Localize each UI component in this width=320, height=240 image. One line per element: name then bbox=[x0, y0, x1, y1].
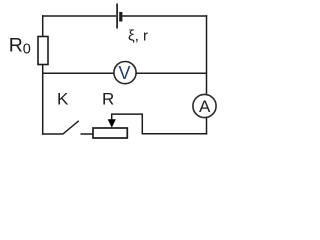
wire right vertical upper bbox=[206, 15, 208, 95]
svg-text:R: R bbox=[102, 90, 114, 109]
wire bottom right bbox=[142, 133, 207, 135]
svg-text:ξ, r: ξ, r bbox=[128, 28, 148, 45]
switch fixed contact wire bbox=[81, 133, 94, 135]
battery cell short plate bbox=[119, 12, 122, 22]
svg-text:K: K bbox=[57, 90, 69, 109]
wire wiper drop bbox=[141, 114, 143, 135]
wire left vertical lower bbox=[42, 65, 44, 135]
rheostat R body bbox=[93, 128, 127, 138]
wire wiper horizontal bbox=[111, 113, 142, 115]
wire bottom left bbox=[42, 133, 63, 135]
svg-text:V: V bbox=[118, 63, 130, 83]
resistor R0 bbox=[38, 37, 48, 65]
ammeter A bbox=[193, 94, 216, 117]
wire middle left bbox=[42, 72, 114, 74]
svg-text:A: A bbox=[199, 97, 211, 116]
wire top right bbox=[122, 15, 207, 17]
voltmeter V bbox=[114, 62, 136, 84]
wire middle right bbox=[136, 72, 207, 74]
wire top left bbox=[42, 15, 116, 17]
battery cell long plate bbox=[116, 4, 118, 29]
wire right vertical lower bbox=[206, 117, 208, 134]
svg-text:R0: R0 bbox=[9, 35, 31, 58]
wire left vertical upper bbox=[42, 15, 44, 37]
switch K blade bbox=[63, 121, 79, 135]
rheostat wiper arrow bbox=[111, 114, 113, 122]
